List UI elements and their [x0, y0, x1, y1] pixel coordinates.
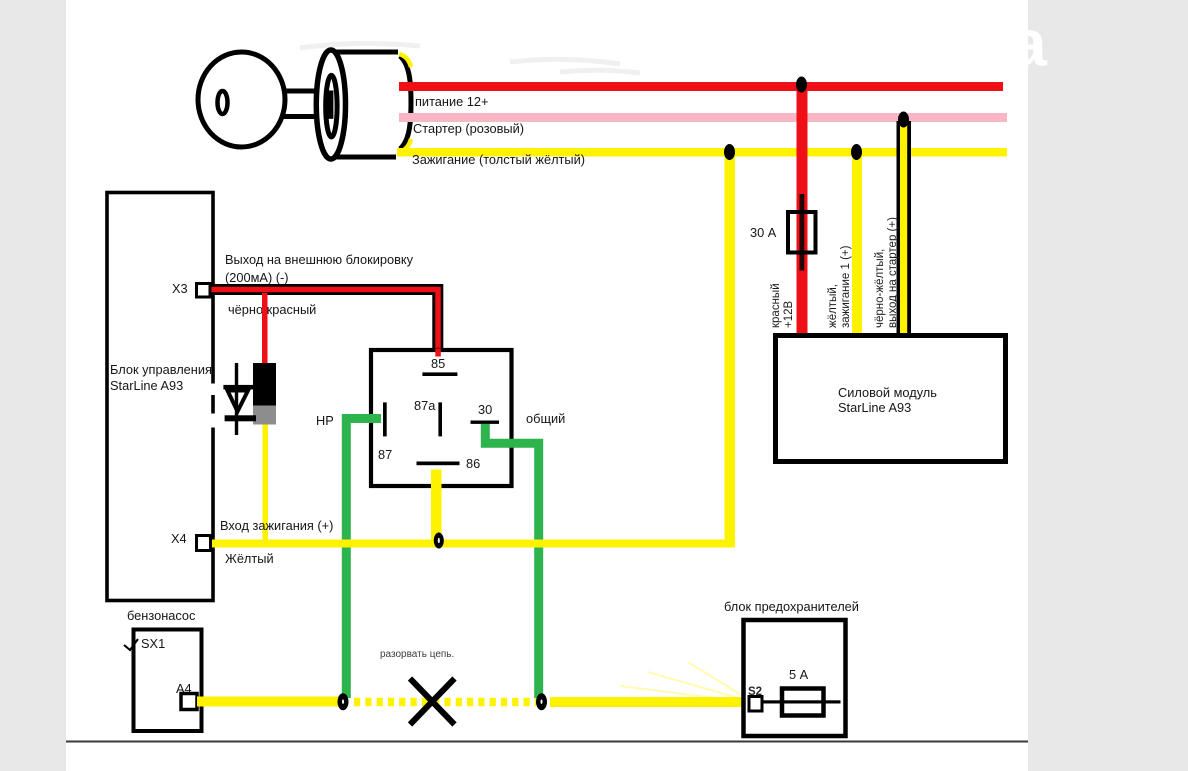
yellow spray artifact	[620, 662, 743, 701]
svg-text:87а: 87а	[414, 398, 436, 413]
yellow arc artifact bottom	[399, 139, 411, 152]
relay box	[371, 350, 512, 486]
junction on yellow wire left	[724, 144, 735, 160]
junction on pink wire	[898, 112, 909, 128]
fuse element 30A	[800, 194, 805, 271]
relay pin 30 bar	[471, 421, 500, 424]
junction right on pump wire	[536, 693, 547, 710]
svg-text:+12В: +12В	[783, 300, 795, 328]
diode cathode band gray	[253, 406, 276, 425]
diode cathode bar	[225, 415, 256, 421]
eraser smudge top	[300, 43, 640, 73]
svg-text:5 А: 5 А	[789, 667, 809, 682]
wire green HP	[346, 419, 381, 699]
fuse block box	[744, 620, 846, 736]
wire yellow from pin 86	[431, 470, 442, 546]
wire black-red X3 to relay 85	[203, 290, 438, 351]
wire black-yellow starter output	[897, 121, 912, 333]
diode body black	[253, 363, 276, 406]
svg-text:Вход зажигания (+): Вход зажигания (+)	[220, 518, 333, 533]
svg-text:зажигание 1 (+): зажигание 1 (+)	[840, 245, 852, 328]
svg-text:(200мА) (-): (200мА) (-)	[225, 270, 289, 285]
ignition key head	[198, 52, 285, 147]
fuel pump box SX1	[134, 630, 202, 732]
keyway slot	[327, 91, 333, 119]
svg-text:разорвать цепь.: разорвать цепь.	[380, 649, 454, 660]
relay pin 87a bar	[438, 402, 442, 436]
tick mark	[124, 639, 138, 650]
fuse 5A wire	[762, 700, 841, 703]
svg-text:87: 87	[378, 447, 392, 462]
svg-text:StarLine A93: StarLine A93	[838, 400, 911, 415]
svg-text:Выход на внешнюю блокировку: Выход на внешнюю блокировку	[225, 252, 414, 267]
svg-text:SX1: SX1	[141, 636, 165, 651]
wire +12V red horizontal	[399, 82, 1003, 91]
diode triangle	[228, 391, 249, 412]
svg-text:86: 86	[466, 456, 480, 471]
relay pin 87 bar	[383, 402, 387, 436]
svg-text:питание 12+: питание 12+	[415, 94, 489, 109]
fuse 30A body	[788, 212, 816, 253]
white gap in control box border lower	[209, 414, 218, 428]
yellow arc artifact top	[399, 54, 411, 67]
wire ignition yellow horizontal	[397, 148, 1007, 157]
connector S2	[749, 697, 762, 712]
svg-text:a: a	[1010, 6, 1048, 80]
wire red stub into pin 85	[435, 349, 441, 357]
diode symbol vertical lead	[235, 363, 238, 435]
svg-text:бензонасос: бензонасос	[127, 608, 196, 623]
wire yellow fuel pump solid left	[197, 697, 339, 707]
connector X4	[197, 536, 211, 551]
svg-text:общий: общий	[526, 411, 565, 426]
keyhole	[218, 91, 228, 114]
svg-text:30: 30	[478, 402, 492, 417]
wire red branch to diode	[262, 293, 268, 364]
wire yellow vertical ignition to relay line	[725, 150, 736, 547]
key shaft	[284, 91, 334, 117]
svg-text:чёрно-жёлтый,: чёрно-жёлтый,	[874, 249, 886, 328]
diode anode bar	[223, 385, 253, 390]
svg-text:StarLine A93: StarLine A93	[110, 378, 183, 393]
svg-text:X3: X3	[172, 281, 188, 296]
junction on yellow wire right	[851, 144, 862, 160]
lock barrel body	[331, 52, 397, 157]
connector X3	[197, 284, 211, 298]
wire yellow dashed cut section	[354, 698, 536, 707]
junction on ignition input	[434, 533, 444, 549]
relay pin 85 bar	[422, 372, 457, 376]
svg-text:блок предохранителей: блок предохранителей	[724, 599, 859, 614]
wire yellow ignition input main	[209, 540, 735, 548]
wire yellow from diode down	[263, 425, 269, 546]
svg-text:85: 85	[431, 356, 445, 371]
svg-text:НР: НР	[316, 413, 334, 428]
wire starter pink horizontal	[399, 113, 1007, 122]
svg-text:жёлтый,: жёлтый,	[827, 284, 839, 328]
junction on red wire	[796, 77, 807, 93]
svg-text:Блок управления: Блок управления	[110, 362, 212, 377]
control unit box	[107, 193, 213, 601]
svg-text:красный: красный	[770, 283, 782, 328]
svg-text:X4: X4	[171, 531, 187, 546]
power module box	[776, 336, 1006, 462]
svg-text:Зажигание (толстый жёлтый): Зажигание (толстый жёлтый)	[412, 152, 585, 167]
fuse 5A body	[782, 689, 824, 716]
wire yellow fuel pump solid right	[550, 697, 743, 707]
bottom rule	[66, 741, 1028, 743]
wire yellow vertical ignition 1 to power module	[852, 150, 862, 333]
svg-text:30 А: 30 А	[750, 225, 777, 240]
svg-text:Силовой модуль: Силовой модуль	[838, 385, 937, 400]
connector A4	[181, 694, 197, 710]
svg-text:Стартер (розовый): Стартер (розовый)	[413, 121, 524, 136]
junction left on pump wire	[338, 693, 349, 710]
lock plug	[326, 75, 337, 137]
relay pin 86 bar	[417, 462, 460, 466]
svg-text:выход на стартер (+): выход на стартер (+)	[887, 217, 899, 328]
X cut mark	[410, 679, 455, 725]
wire red vertical +12V feed	[797, 84, 808, 333]
lock barrel right end arc	[400, 56, 411, 149]
lock barrel face	[316, 50, 345, 159]
svg-text:чёрно красный: чёрно красный	[228, 302, 316, 317]
wire green from pin 30	[485, 424, 538, 698]
svg-text:Жёлтый: Жёлтый	[225, 551, 274, 566]
white gap in control box border upper	[209, 384, 218, 396]
